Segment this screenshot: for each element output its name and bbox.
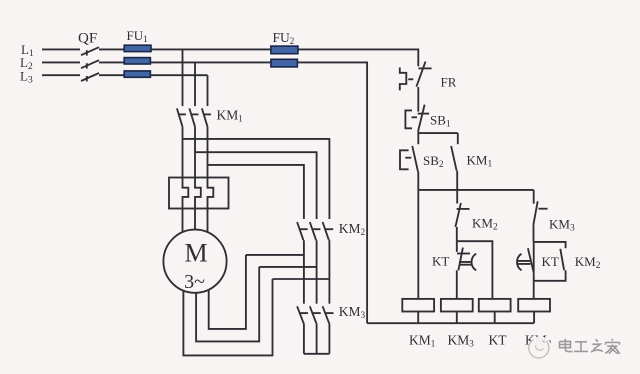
pushbutton SB1 NC tick [418,113,430,115]
wire node3 down to KT contact [456,241,458,252]
wire L2 QF to FU1 [99,61,124,63]
SB2 link dash [405,157,411,159]
wire bottom rail [367,322,534,324]
watermark glyph jia [605,339,620,354]
FR heater element 1 [183,178,189,209]
wire coil KT to rail [494,312,496,324]
wire heater to motor 2 [194,209,196,231]
wire loop tap to KM2 pole1 bottom [246,254,304,256]
wire node2 rail [418,189,533,191]
wire loop tap to KM2 pole2 bottom [259,266,316,268]
contactor KM3 pole 1 blade [297,306,304,323]
wire node3 to KT coil [457,241,493,299]
wire tap 2 to KM2 pole 2 [195,152,317,219]
coil KM3 [441,299,473,312]
wire L2 FU1 to FU2 [150,61,271,63]
wire L2 FU2 to left control rail [297,62,367,323]
contactor KM3 pole 3 blade [323,306,330,323]
contactor KM3 pole 1 tick [299,312,308,314]
wire FR to SB1 [417,87,419,112]
wire KM3 pole 2 bottom [316,323,318,353]
fuse FU2 element 1 [271,46,298,54]
wire L2 left segment [42,61,80,63]
contactor KM3 pole 2 tick [312,312,321,314]
timer KT delay arc [472,254,477,271]
wire L1 QF to FU1 [99,48,124,50]
wire node1 to SB2 [417,133,419,144]
svg-text:FR: FR [441,75,457,90]
breaker QF pole 1 tick [86,50,88,55]
fuse FU1 element 1 [124,45,151,51]
wire KM3 aux to node4 [533,225,535,242]
wire phase drop B [194,62,196,106]
wire KM2 aux right return [534,270,566,281]
wire motor T2 middle loop [196,267,259,342]
wire tap 1 to KM2 pole 3 [183,139,330,219]
wire L1 FU2 to control corner [298,49,418,66]
breaker QF pole 3 blade [81,73,99,81]
contactor KM2 aux right NO blade [560,249,564,270]
wire L1 FU1 to FU2 [151,48,271,50]
wire L3 FU1 to drop [150,74,207,76]
contactor KM2 pole 3 blade [323,222,329,240]
wire SB1 to node1 [417,130,419,134]
wire node2 to KM1 coil [417,190,419,299]
timer KT NC tick [457,253,470,255]
contactor KM1 main pole 2 [189,108,195,126]
wire below KM1 pole 2 [194,127,196,178]
wire loop tap to KM2 pole3 bottom [273,278,330,280]
contactor KM3 pole 2 blade [310,306,317,323]
wire node1 horizontal [418,132,458,134]
contactor KM1 aux NO blade [451,146,457,171]
wire node1 to KM1 aux [457,133,459,144]
timer KT right delay arc [517,254,522,271]
pushbutton SB2 NO blade [412,146,418,172]
timer KT right NO delayed blade [528,248,534,271]
svg-text:KT: KT [489,333,508,348]
contactor KM1 main pole 1 [177,108,183,126]
timer KT NC delayed blade [458,248,463,271]
coil KM1 [402,299,434,312]
wire coil KM2 to rail [533,312,535,324]
wire tap 3 to KM2 pole 1 [208,165,304,219]
svg-text:KT: KT [542,254,559,269]
wire motor T3 inner loop [209,255,246,329]
wire coil KM1 to rail [417,312,419,324]
thermal relay FR NC contact blade [416,62,425,87]
breaker QF pole 2 blade [81,60,99,68]
watermark glyph gong [574,342,588,352]
wire KM2 pole1 to KM3 pole1 [303,240,305,304]
wire KM2 aux to node3 [456,227,458,241]
fuse FU1 element 2 [124,58,150,64]
contactor KM1 main pole 2 tick [192,113,199,115]
watermark glyph dian [560,339,573,352]
pushbutton SB1 actuator bracket [405,110,412,128]
FR heater element 2 [195,178,201,209]
wire KT right to KM2 coil [533,242,535,299]
contactor KM2 pole 3 tick [325,228,333,230]
thermal relay FR NC contact tick [418,67,431,69]
contactor KM3 pole 3 tick [325,312,334,314]
fuse FU2 element 2 [271,59,298,67]
wire KT contact to KM3 coil [456,270,458,299]
wire KM3 pole 3 bottom [328,323,330,353]
watermark logo circle [528,336,551,359]
wire coil KM3 to rail [456,312,458,324]
breaker QF pole 2 tick [86,63,88,68]
timer KT right delay lines [517,261,531,264]
coil KT [479,299,511,312]
thermal relay FR heater box [169,178,229,209]
contactor KM1 main pole 3 [202,108,208,126]
svg-text:3~: 3~ [184,271,205,293]
wire L3 left segment [42,74,80,76]
svg-text:M: M [184,239,207,268]
wire heater to motor 1 [182,209,184,233]
wire L3 QF to FU1 [99,74,124,76]
wire KM1 aux to node2 [456,171,458,190]
pushbutton SB1 NC blade [419,105,425,130]
timer KT delay lines [459,262,471,265]
breaker QF pole 1 blade [81,47,99,55]
contactor KM1 main pole 3 tick [204,113,211,115]
wire node4 branch to KM2 aux right [534,242,566,248]
wire below KM1 pole 3 [207,127,209,178]
wire motor T1 outer loop [183,279,272,355]
contactor KM1 main pole 1 tick [179,113,186,115]
wire heater to motor 3 [207,209,209,233]
watermark glyph zhi [591,339,603,352]
KM3 aux seat dash [539,208,548,210]
wire KM3 pole 1 bottom [303,323,305,353]
FR heater element 3 [208,178,214,209]
wire KM2 pole3 to KM3 pole3 [328,240,330,304]
contactor KM3 aux NO blade [533,201,537,224]
wire L1 left segment [42,48,80,50]
wire SB2 to node2 [417,172,419,190]
FR link dash [408,78,413,80]
wire phase drop A [182,49,184,106]
svg-text:KT: KT [432,254,449,269]
KM2 aux seat dash [457,208,470,210]
coil KM2 [518,299,550,312]
wire KM3 star bar [304,353,330,355]
svg-text:QF: QF [78,31,97,47]
contactor KM2 pole 1 tick [300,228,308,230]
contactor KM2 pole 2 tick [313,228,321,230]
thermal relay FR release hook [400,68,407,91]
wire below KM1 pole 1 [182,127,184,178]
contactor KM2 aux NO blade [455,203,461,227]
motor M circle [163,230,226,293]
pushbutton SB2 actuator bracket [400,150,409,169]
fuse FU1 element 3 [124,71,150,77]
wire KM2 pole2 to KM3 pole2 [316,240,318,304]
contactor KM2 pole 1 blade [297,222,303,240]
contactor KM2 pole 2 blade [310,222,316,240]
wire node2 to KM3 aux [533,190,535,204]
wire phase drop C [207,75,209,106]
wire node2 to KM2 aux [456,190,458,204]
SB1 link dash [412,116,418,118]
breaker QF pole 3 tick [86,76,88,81]
